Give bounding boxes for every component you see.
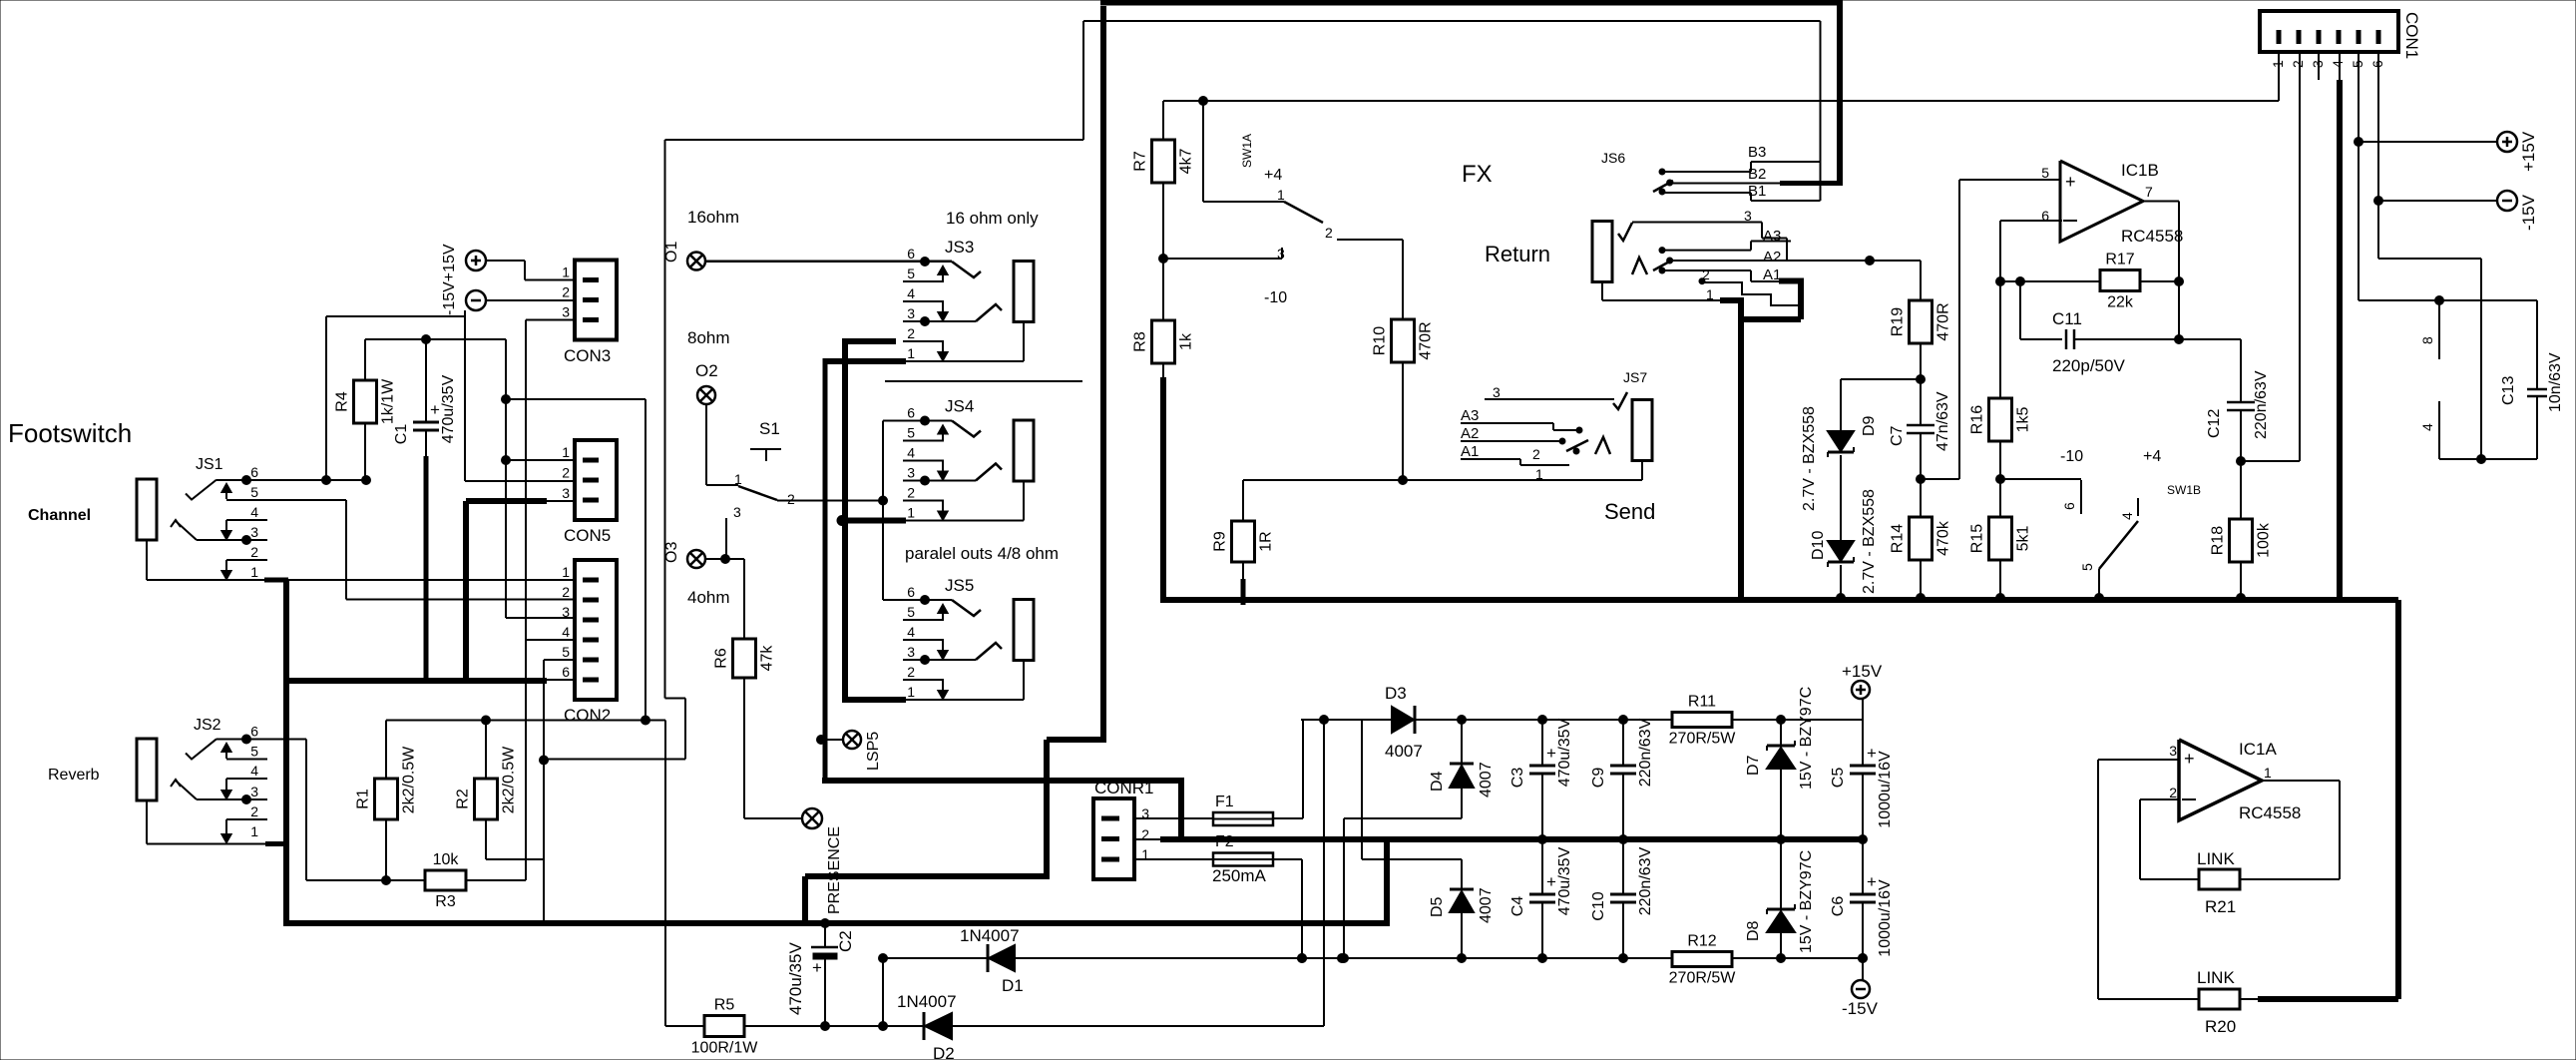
svg-text:C3: C3 [1509,768,1526,789]
svg-text:1: 1 [250,564,258,580]
svg-text:1: 1 [1277,187,1285,203]
svg-text:100k: 100k [2256,522,2273,558]
svg-text:6: 6 [907,584,915,600]
svg-text:RC4558: RC4558 [2121,227,2183,246]
svg-text:LSP5: LSP5 [865,732,882,771]
svg-text:R4: R4 [334,391,351,412]
svg-text:1k5: 1k5 [2015,407,2032,433]
svg-text:4007: 4007 [1478,762,1495,797]
svg-text:CON1: CON1 [2402,12,2421,59]
svg-text:JS1: JS1 [196,456,223,473]
svg-text:2: 2 [562,284,570,300]
svg-text:250mA: 250mA [1212,866,1267,885]
svg-text:C4: C4 [1509,896,1526,917]
svg-text:3: 3 [907,644,915,660]
svg-text:2: 2 [907,485,915,501]
svg-text:1: 1 [907,684,915,700]
svg-text:16 ohm only: 16 ohm only [946,209,1039,228]
svg-text:2: 2 [787,491,795,507]
svg-text:5k1: 5k1 [2015,526,2032,552]
svg-text:47k: 47k [759,645,776,672]
svg-text:C5: C5 [1830,768,1847,789]
svg-text:2k2/0.5W: 2k2/0.5W [401,746,418,813]
svg-text:F1: F1 [1215,794,1234,810]
svg-text:220n/63V: 220n/63V [1637,718,1654,787]
svg-text:C1: C1 [393,424,410,445]
svg-text:3: 3 [562,604,570,620]
svg-text:C9: C9 [1590,768,1607,789]
svg-text:R3: R3 [435,893,456,910]
svg-text:16ohm: 16ohm [687,208,739,227]
svg-text:D5: D5 [1429,896,1446,917]
svg-text:JS7: JS7 [1623,369,1647,385]
svg-text:100R/1W: 100R/1W [691,1040,759,1057]
svg-text:8ohm: 8ohm [687,328,730,347]
svg-text:4: 4 [2419,423,2435,431]
svg-text:R2: R2 [455,789,472,809]
svg-text:+4: +4 [2143,448,2161,465]
svg-text:C2: C2 [836,930,855,952]
svg-text:R19: R19 [1890,307,1907,336]
svg-text:4k7: 4k7 [1178,149,1195,175]
svg-text:6: 6 [907,405,915,421]
svg-text:3: 3 [250,524,258,540]
svg-text:470R: 470R [1418,321,1435,359]
svg-text:PRESENCE: PRESENCE [826,826,843,914]
svg-text:470u/35V: 470u/35V [786,942,805,1015]
svg-text:S1: S1 [759,419,780,438]
svg-text:R20: R20 [2205,1017,2236,1036]
svg-text:B3: B3 [1748,144,1766,161]
svg-text:2k2/0.5W: 2k2/0.5W [501,746,518,813]
svg-text:R14: R14 [1890,524,1907,553]
svg-text:D10: D10 [1810,531,1827,560]
svg-text:-15V: -15V [1842,999,1879,1018]
svg-text:JS5: JS5 [945,576,974,595]
svg-text:4: 4 [907,445,915,461]
svg-text:1: 1 [907,505,915,521]
svg-text:C13: C13 [2500,376,2517,405]
svg-text:O1: O1 [663,242,680,263]
svg-text:-15V+15V: -15V+15V [441,244,458,315]
svg-text:470u/35V: 470u/35V [1556,718,1573,787]
svg-text:D4: D4 [1429,771,1446,792]
svg-text:2.7V - BZX558: 2.7V - BZX558 [1861,489,1878,594]
svg-text:2: 2 [562,584,570,600]
svg-text:270R/5W: 270R/5W [1669,970,1737,987]
svg-text:4: 4 [907,624,915,640]
svg-text:C6: C6 [1830,896,1847,917]
svg-text:R6: R6 [713,648,730,669]
svg-text:470u/35V: 470u/35V [1556,846,1573,915]
svg-text:3: 3 [907,305,915,321]
svg-text:10k: 10k [433,851,460,868]
svg-text:1: 1 [2264,765,2272,781]
svg-text:270R/5W: 270R/5W [1669,731,1737,748]
svg-text:1: 1 [1535,466,1543,482]
svg-text:R11: R11 [1688,694,1716,711]
svg-text:220p/50V: 220p/50V [2052,356,2125,375]
svg-text:6: 6 [250,464,258,480]
svg-text:470u/35V: 470u/35V [440,374,457,443]
svg-text:Return: Return [1485,242,1550,266]
svg-text:+: + [2065,172,2076,192]
svg-text:2: 2 [907,325,915,341]
svg-text:1N4007: 1N4007 [897,992,957,1011]
svg-text:LINK: LINK [2197,968,2235,987]
svg-text:5: 5 [907,265,915,281]
svg-text:O3: O3 [663,542,680,563]
svg-text:2: 2 [1532,446,1540,462]
svg-text:47n/63V: 47n/63V [1934,391,1951,451]
svg-text:4: 4 [2330,60,2346,68]
svg-text:+: + [2184,749,2195,769]
svg-text:22k: 22k [2107,294,2134,311]
svg-text:1: 1 [734,471,742,487]
svg-text:JS3: JS3 [945,238,974,257]
svg-text:3: 3 [733,504,741,520]
svg-text:5: 5 [907,425,915,441]
svg-text:+4: +4 [1264,167,1282,184]
svg-text:1k: 1k [1178,332,1195,350]
svg-text:5: 5 [562,644,570,660]
svg-text:D9: D9 [1861,415,1878,436]
svg-text:+: + [1867,744,1877,763]
svg-text:Send: Send [1604,499,1655,524]
svg-text:4: 4 [250,504,258,520]
svg-text:5: 5 [2079,563,2095,571]
svg-text:5: 5 [250,484,258,500]
svg-text:3: 3 [562,485,570,501]
svg-text:1R: 1R [1258,531,1275,551]
svg-text:A2: A2 [1461,425,1479,442]
svg-text:6: 6 [2041,208,2049,224]
svg-text:R15: R15 [1969,524,1986,553]
svg-text:R18: R18 [2210,526,2227,555]
svg-text:1: 1 [562,265,570,280]
svg-text:4: 4 [907,285,915,301]
svg-text:4007: 4007 [1385,742,1423,761]
svg-text:R21: R21 [2205,897,2236,916]
svg-text:SW1B: SW1B [2167,483,2201,497]
svg-text:CON5: CON5 [564,526,611,545]
svg-text:C11: C11 [2052,309,2082,328]
svg-text:1: 1 [907,345,915,361]
svg-text:1: 1 [562,444,570,460]
svg-text:2: 2 [1325,225,1333,241]
svg-text:C10: C10 [1590,891,1607,920]
svg-text:R7: R7 [1132,151,1149,172]
svg-text:5: 5 [250,744,258,760]
svg-text:470R: 470R [1935,302,1952,340]
svg-text:O2: O2 [695,361,718,380]
svg-text:JS2: JS2 [194,717,221,734]
svg-text:1000u/16V: 1000u/16V [1877,879,1894,957]
svg-text:3: 3 [2169,743,2177,759]
svg-text:Footswitch: Footswitch [8,418,132,448]
svg-text:D3: D3 [1385,684,1407,703]
svg-text:CON2: CON2 [564,706,611,725]
svg-text:A2: A2 [1763,249,1781,265]
svg-text:R16: R16 [1969,405,1986,434]
svg-text:7: 7 [2145,184,2153,200]
svg-text:+: + [1867,872,1877,891]
svg-text:LINK: LINK [2197,849,2235,868]
svg-text:R17: R17 [2105,252,2134,268]
svg-text:IC1B: IC1B [2121,161,2159,180]
svg-text:+15V: +15V [1842,662,1883,681]
svg-text:A1: A1 [1461,443,1479,460]
svg-text:6: 6 [562,664,570,680]
svg-text:10n/63V: 10n/63V [2547,352,2564,412]
svg-text:2: 2 [2169,785,2177,800]
svg-text:1000u/16V: 1000u/16V [1877,751,1894,828]
svg-text:FX: FX [1462,161,1493,188]
svg-text:4: 4 [562,624,570,640]
svg-text:JS6: JS6 [1601,150,1625,166]
svg-text:220n/63V: 220n/63V [1637,846,1654,915]
svg-text:4007: 4007 [1478,887,1495,923]
svg-text:C7: C7 [1889,425,1906,446]
svg-text:CON3: CON3 [564,346,611,365]
svg-text:D1: D1 [1002,976,1024,995]
svg-text:2.7V - BZX558: 2.7V - BZX558 [1801,406,1818,511]
svg-text:2: 2 [250,803,258,819]
svg-text:R1: R1 [355,789,372,809]
svg-text:-10: -10 [1264,289,1287,306]
svg-text:+15V: +15V [2519,131,2538,172]
svg-text:4ohm: 4ohm [687,588,730,607]
svg-text:Channel: Channel [28,507,91,524]
svg-text:SW1A: SW1A [1240,134,1254,168]
svg-text:8: 8 [2419,336,2435,344]
svg-text:paralel outs 4/8 ohm: paralel outs 4/8 ohm [905,544,1059,563]
svg-text:1: 1 [250,823,258,839]
svg-text:1: 1 [562,564,570,580]
svg-text:3: 3 [907,465,915,481]
svg-text:15V - BZY97C: 15V - BZY97C [1798,687,1815,790]
svg-text:IC1A: IC1A [2239,740,2277,759]
svg-text:+: + [1546,744,1556,763]
svg-text:2: 2 [2290,60,2306,68]
svg-text:220n/63V: 220n/63V [2253,370,2270,439]
svg-text:2: 2 [250,544,258,560]
svg-text:1N4007: 1N4007 [960,926,1020,945]
svg-text:-15V: -15V [2519,194,2538,231]
svg-text:4: 4 [2119,512,2135,520]
svg-text:RC4558: RC4558 [2239,803,2301,822]
svg-text:R10: R10 [1372,326,1389,355]
svg-text:6: 6 [250,724,258,740]
svg-text:R9: R9 [1212,531,1229,552]
svg-text:+: + [430,400,440,419]
svg-text:JS4: JS4 [945,397,974,416]
svg-text:1k/1W: 1k/1W [380,378,397,424]
svg-text:6: 6 [2061,502,2077,510]
svg-text:-10: -10 [2060,448,2083,465]
svg-text:2: 2 [562,465,570,481]
svg-text:4: 4 [250,763,258,779]
svg-text:Reverb: Reverb [48,767,100,784]
svg-text:3: 3 [250,784,258,799]
svg-text:470k: 470k [1935,520,1952,556]
svg-text:R5: R5 [714,997,735,1014]
svg-text:15V - BZY97C: 15V - BZY97C [1798,850,1815,953]
svg-text:3: 3 [1493,384,1501,400]
svg-text:2: 2 [907,664,915,680]
svg-text:5: 5 [2041,165,2049,181]
svg-text:5: 5 [907,604,915,620]
svg-text:B2: B2 [1748,166,1766,183]
svg-text:D7: D7 [1745,755,1762,776]
svg-text:3: 3 [562,304,570,320]
svg-text:D2: D2 [933,1044,955,1060]
svg-text:R12: R12 [1687,933,1716,950]
svg-text:R8: R8 [1132,331,1149,352]
svg-text:A3: A3 [1461,407,1479,424]
svg-text:+: + [812,958,822,977]
svg-text:D8: D8 [1745,920,1762,941]
svg-text:6: 6 [907,246,915,262]
svg-text:+: + [1546,872,1556,891]
svg-text:C12: C12 [2206,409,2223,438]
